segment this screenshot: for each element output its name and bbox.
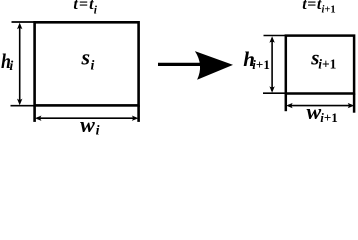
svg-text:t=t: t=t [302,0,322,13]
svg-text:i: i [96,124,100,139]
svg-text:i+1: i+1 [318,56,336,71]
big transformation arrow [158,51,233,80]
label t=t_i+1 [302,0,335,16]
rectangle left (state i) [35,22,139,105]
svg-text:i+1: i+1 [322,5,336,16]
extension line top-left of right rectangle [264,35,286,37]
extension line below-right edge of left rectangle [137,105,140,122]
svg-text:w: w [80,112,95,137]
svg-text:s: s [81,45,91,70]
svg-text:i+1: i+1 [252,57,270,72]
extension line below-left edge of right rectangle [285,94,288,112]
extension line below-right edge of right rectangle [353,94,356,113]
label h_i+1 [243,47,270,72]
extension line below-left edge of left rectangle [33,105,36,122]
label t=t_i [73,0,97,16]
extension line bottom-left of right rectangle [263,92,285,94]
dimension arrow w_i (horizontal double arrow) [35,116,138,121]
label s_i+1 [310,45,336,71]
dimension arrow h_i (vertical double arrow) [17,23,22,106]
svg-text:i: i [9,59,13,74]
label s_i [81,45,95,74]
extension line top-left of left rectangle [12,21,35,23]
label w_i+1 [307,99,338,125]
svg-text:t=t: t=t [73,0,94,13]
dimension arrow h_i+1 (vertical double arrow) [269,36,274,93]
label h_i [1,51,13,74]
dimension arrow w_i+1 (horizontal double arrow) [286,103,354,108]
label w_i [80,112,100,139]
svg-text:i: i [91,59,95,74]
svg-text:i+1: i+1 [320,110,338,125]
rectangle right (state i+1) [286,36,354,94]
extension line bottom-left of left rectangle [11,105,35,107]
